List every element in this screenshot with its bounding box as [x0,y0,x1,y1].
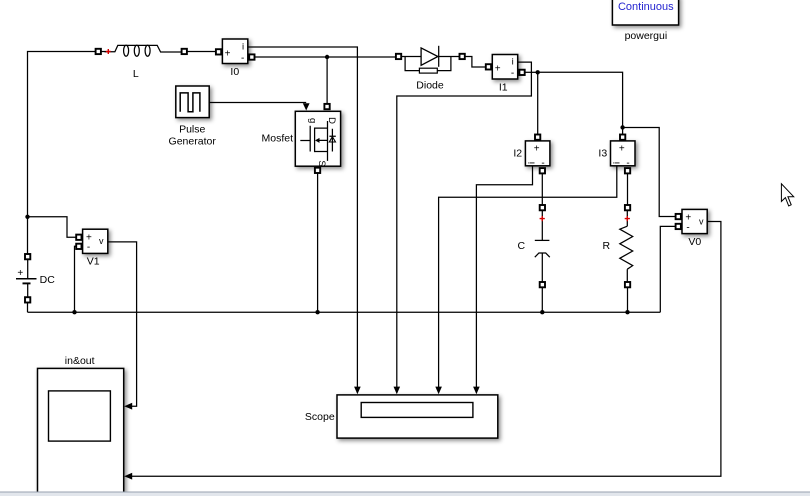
current measurement I0 [216,39,255,64]
value label R [603,240,611,252]
svg-text:+: + [619,143,625,154]
label in&out [65,355,95,367]
wire: junction down to mosfet drain [326,57,328,104]
diode D [396,46,465,73]
mouse cursor [781,184,793,206]
node: junction at I3 branch [620,125,624,129]
svg-text:+: + [495,64,501,75]
node: mosfet source junction on bus [315,310,319,314]
wire: junction across and down to V0 plus [623,128,676,217]
svg-text:I2: I2 [513,148,522,160]
label I0 [230,66,239,78]
svg-text:V0: V0 [688,236,701,248]
wire: node across to I3 branch [538,72,623,127]
label Pulse Generator [169,124,217,148]
svg-text:C: C [518,240,526,252]
node: V1 minus junction on bus [72,310,76,314]
powergui block [612,0,678,25]
polarity mark of C [540,216,545,221]
wire: I2 i measurement to Scope [473,166,532,394]
label V0 [688,236,701,248]
scope block [337,395,498,438]
svg-text:+: + [225,49,231,60]
svg-text:i: i [242,41,244,52]
svg-text:Diode: Diode [416,79,444,91]
wire: I3 minus to R [627,173,629,205]
voltage measurement V1 [76,229,108,253]
wire: Diode cathode to I1 plus [465,57,486,68]
wire: Pulse Generator to mosfet gate (arrow) [209,103,310,111]
svg-text:S: S [316,160,327,166]
svg-text:v: v [699,216,704,226]
wire: V1 minus to bus [75,246,77,312]
voltage measurement V0 [676,209,708,233]
svg-text:V1: V1 [87,255,100,267]
label powergui [625,30,668,42]
svg-text:-: - [87,242,90,253]
polarity mark of L [106,49,111,54]
subsystem in&out [38,368,124,496]
wire: I2 minus to C [541,173,543,205]
inductor L [96,45,188,56]
wire: V0 v output down and to in&out (arrow) [124,222,721,480]
svg-text:Mosfet: Mosfet [262,133,294,145]
wire: I0 minus to Diode anode [255,56,396,58]
current measurement I2 [525,135,550,174]
capacitor C [535,205,550,287]
svg-text:-: - [686,222,689,233]
wire: left loop from L down to DC [28,52,96,254]
label Diode [416,79,444,91]
status bar strip [0,492,810,496]
value label L [133,68,139,80]
wire: L to I0 plus [188,51,216,53]
dc voltage source DC [16,254,37,303]
pulse generator [176,86,209,118]
label I3 [598,148,607,160]
wire: I1 i measurement to Scope [394,62,532,394]
node: junction to mosfet drain [325,55,329,59]
node: output node junction at I2 [536,70,540,74]
wire: R to bus [627,288,629,313]
wire: DC minus down to ground bus [27,303,29,313]
wire: junction down to I3 plus [622,127,624,134]
svg-text:DC: DC [40,274,56,286]
label I2 [513,148,522,160]
wire: I0 i measurement to Scope [248,47,361,394]
svg-text:g: g [307,118,318,123]
current measurement I1 [486,55,525,80]
current measurement I3 [611,135,636,174]
svg-text:-: - [511,68,514,79]
mosfet Q [295,104,340,173]
svg-text:I3: I3 [598,148,607,160]
value label C [518,240,526,252]
svg-text:i: i [526,162,537,164]
polarity mark of R [625,216,630,221]
svg-text:i: i [612,162,623,164]
label DC [40,274,56,286]
resistor R [620,205,633,287]
svg-text:I1: I1 [499,82,508,94]
svg-text:v: v [99,236,104,246]
svg-text:i: i [512,56,514,67]
wire: node down to I2 plus [537,72,539,134]
wire: bottom ground bus [28,311,661,313]
svg-text:R: R [603,240,611,252]
wire: I1 minus to output node [525,71,538,73]
svg-text:in&out: in&out [65,355,95,367]
wire: V1 v output to in&out (arrow) [108,242,137,410]
node: junction to V1 plus [25,215,29,219]
wire: V0 minus to bus end [660,226,675,312]
wire: mosfet source to bus [317,173,319,312]
node: C junction on bus [540,310,544,314]
svg-text:I0: I0 [230,66,239,78]
svg-text:powergui: powergui [625,30,668,42]
svg-text:Scope: Scope [305,411,335,423]
node: R junction on bus [625,310,629,314]
label Scope [305,411,335,423]
label Mosfet [262,133,294,145]
svg-text:Pulse: Pulse [179,124,205,136]
svg-text:-: - [241,53,244,64]
svg-text:+: + [534,143,540,154]
label V1 [87,255,100,267]
svg-text:L: L [133,68,139,80]
wire: branch to V1 plus input [28,217,77,237]
svg-text:Continuous: Continuous [618,1,674,13]
wire: I3 i measurement to Scope [435,166,617,394]
label I1 [499,82,508,94]
wire: C to bus [541,288,543,313]
svg-text:+: + [17,268,23,279]
svg-text:Generator: Generator [169,136,217,148]
